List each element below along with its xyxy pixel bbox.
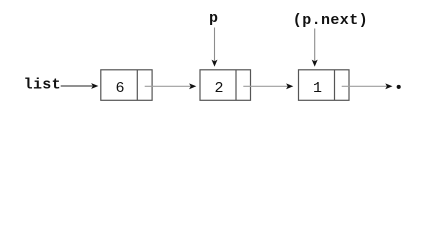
svg-text:2: 2 <box>215 80 224 97</box>
node 3 box <box>299 70 350 101</box>
node 1 box <box>101 70 152 101</box>
wire list arrow <box>61 83 99 89</box>
wire link node1 to node2 <box>145 83 197 89</box>
wire p down-arrow <box>212 28 218 67</box>
svg-text:p: p <box>209 10 218 27</box>
wire (p.next) down-arrow <box>312 29 318 67</box>
svg-text:list: list <box>24 77 61 94</box>
wire link node3 to null dot <box>342 83 393 89</box>
svg-text:6: 6 <box>116 80 125 97</box>
wire link node2 to node3 <box>243 83 293 89</box>
node 2 box <box>200 70 251 101</box>
null terminator dot <box>397 85 401 89</box>
svg-text:(p.next): (p.next) <box>293 12 368 29</box>
svg-text:1: 1 <box>313 80 322 97</box>
